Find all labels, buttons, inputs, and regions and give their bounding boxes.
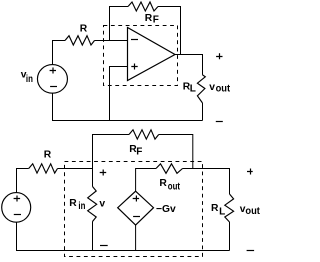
wire RF down to output node — [159, 135, 193, 169]
wire R to input node — [58, 168, 93, 170]
resistor RF (bottom) — [129, 130, 159, 139]
svg-text:R: R — [159, 178, 167, 189]
wire non-inverting input to ground rail — [110, 67, 128, 121]
svg-text:F: F — [136, 147, 142, 158]
source plus sign — [14, 196, 21, 202]
output wire — [175, 55, 203, 75]
op-amp minus marker — [131, 39, 138, 41]
svg-text:L: L — [190, 84, 196, 95]
wire diamond bottom to rail — [135, 225, 137, 250]
svg-text:in: in — [78, 201, 85, 212]
svg-text:R: R — [44, 150, 52, 161]
voltage source (bottom) — [2, 193, 31, 223]
wire feedback takeoff up to RF — [110, 7, 129, 41]
dashed box op-amp — [104, 26, 178, 86]
dependent source -Gv (diamond) — [118, 191, 154, 225]
source minus sign — [14, 214, 21, 216]
v_out plus marker (bottom) — [247, 169, 253, 175]
input node vertical / RF takeoff — [93, 135, 130, 187]
wire RL bottom — [202, 103, 204, 121]
op-amp plus marker — [131, 64, 137, 70]
svg-text:v: v — [99, 199, 105, 210]
svg-text:out: out — [168, 182, 181, 193]
v_out minus marker (bottom) — [247, 250, 255, 252]
resistor R (top) — [65, 36, 95, 45]
svg-text:R: R — [69, 198, 77, 209]
v minus marker — [100, 245, 108, 247]
wire RL to bottom rail — [229, 222, 231, 251]
v plus marker — [100, 170, 107, 176]
diamond minus marker — [133, 216, 140, 218]
v_out plus marker — [216, 53, 222, 59]
v_out minus marker — [216, 121, 223, 123]
wire source to R (bottom) — [17, 169, 29, 193]
resistor RF (top) — [128, 2, 158, 11]
wire source top to resistor R — [53, 41, 66, 65]
resistor RL (top, vertical) — [197, 75, 205, 103]
resistor Rout — [156, 164, 183, 174]
wire RF to output node — [158, 7, 181, 55]
wire R to op-amp inverting input — [95, 40, 128, 42]
resistor Rin (vertical) — [88, 187, 97, 222]
svg-text:R: R — [145, 13, 153, 24]
svg-text:R: R — [80, 23, 88, 34]
svg-text:L: L — [219, 207, 225, 218]
svg-text:v: v — [209, 82, 215, 93]
dashed box amplifier model — [65, 162, 203, 257]
svg-text:F: F — [153, 15, 159, 26]
v_in minus sign — [50, 86, 57, 88]
bottom rail top circuit — [53, 93, 203, 121]
op-amp U1 triangle — [128, 28, 176, 81]
v_in plus sign — [50, 68, 56, 74]
wire Rout to output node and RL — [183, 169, 230, 195]
svg-text:−Gv: −Gv — [156, 204, 176, 215]
bottom rail (bottom circuit) — [17, 222, 230, 251]
svg-text:out: out — [245, 206, 260, 217]
resistor R (bottom) — [29, 164, 58, 173]
diamond plus marker — [133, 196, 139, 202]
wire diamond top to Rout — [136, 169, 156, 192]
svg-text:out: out — [216, 84, 231, 95]
voltage source v_in — [37, 65, 67, 94]
svg-text:in: in — [26, 74, 33, 85]
wire Rin to bottom rail — [92, 222, 94, 251]
resistor RL (bottom, vertical) — [225, 194, 234, 222]
svg-text:R: R — [211, 203, 219, 214]
